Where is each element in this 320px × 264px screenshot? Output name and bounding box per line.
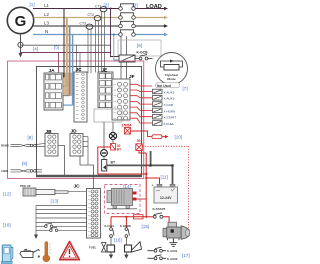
connector JE (98, 72, 113, 108)
junction K-START (145, 216, 147, 218)
svg-text:[12]: [12] (3, 192, 11, 197)
wire sense drop c (79, 53, 81, 73)
twisted pair RS485 (11, 144, 46, 147)
wire battery negative bus (107, 151, 173, 185)
svg-text:12-24V: 12-24V (160, 196, 172, 200)
flywheel diode D1 (156, 53, 188, 85)
junction on L1 (110, 8, 112, 10)
ground of generator (18, 42, 23, 57)
wire sender line 5 (36, 222, 87, 224)
svg-text:JC: JC (74, 184, 81, 190)
wire sense drop a (58, 53, 60, 75)
fuel solenoid valve (102, 243, 115, 253)
wire arrow output (162, 135, 169, 138)
icon oil can (20, 249, 40, 257)
wire CT3 secondary pair (87, 29, 89, 73)
svg-text:X-GCB: X-GCB (164, 103, 174, 107)
wire drop N sense (72, 35, 74, 106)
wire alternator B+ (137, 198, 147, 200)
wire to fuel valve (110, 237, 112, 245)
generator G1 (7, 7, 33, 42)
svg-text:CT2: CT2 (88, 13, 95, 17)
wire pickup to JC (68, 191, 87, 193)
wire K-START feed (146, 216, 153, 218)
dashed box charge alternator (105, 185, 141, 214)
wire earth link (21, 52, 111, 54)
ground senders (34, 234, 38, 240)
wire neutral sense (21, 44, 111, 46)
svg-text:X-START: X-START (164, 116, 177, 120)
svg-text:[18]: [18] (3, 223, 11, 228)
wire JD output stubs (83, 137, 88, 165)
svg-text:Diode: Diode (167, 77, 176, 81)
battery plus symbol (109, 132, 116, 139)
fuse F5 BT (102, 160, 107, 172)
svg-text:CT3: CT3 (80, 22, 87, 26)
icon thermometer (43, 242, 51, 262)
wire L3 to load (136, 24, 169, 28)
svg-text:50: 50 (137, 139, 141, 143)
wire to horn (125, 237, 127, 245)
wire JD to bottom JC (80, 156, 94, 189)
controller inner box (37, 67, 142, 177)
wire stub L2 to JA (62, 85, 67, 87)
svg-text:K-START: K-START (153, 207, 166, 211)
breaker pole 4 (119, 30, 136, 37)
junction battery negative (149, 164, 152, 167)
junction red (145, 173, 147, 175)
wire JB to JD link (58, 146, 65, 177)
connector JC bottom (87, 189, 101, 239)
wire K-GCB coil to JF (120, 62, 122, 79)
ground starter (169, 238, 177, 246)
sender switch 2 (36, 227, 87, 231)
relay contact K-AUX1 (148, 247, 178, 253)
sub box under JE (94, 109, 122, 122)
wire JF outputs to plugs (130, 84, 152, 123)
breaker pole 3 (119, 21, 136, 28)
svg-text:L1: L1 (44, 3, 49, 8)
svg-text:[9]: [9] (22, 161, 27, 166)
connector JB (45, 134, 58, 157)
wire CT2 secondary pair (95, 21, 97, 73)
starter motor M1 (163, 222, 190, 240)
svg-text:[4]: [4] (33, 47, 38, 52)
wire battery positive feed (98, 147, 160, 217)
wire L2 to load (136, 16, 169, 20)
svg-text:N: N (45, 29, 48, 34)
battery minus symbol (101, 150, 108, 157)
wire sender line 2 (36, 209, 87, 211)
charge alternator (107, 189, 137, 209)
fuse F2 30 BT (111, 144, 116, 151)
relay box K-GCB (118, 40, 161, 56)
svg-text:CT1: CT1 (95, 4, 102, 8)
junction on N (113, 34, 115, 36)
wire N (33, 34, 119, 36)
wire stub N to JA (62, 104, 73, 106)
inline fuse F4 (152, 135, 162, 139)
controller outer panel box (8, 61, 144, 179)
connector JC (74, 72, 87, 122)
wire relay bus K-FUEL K-HORN (111, 216, 145, 218)
connector JF (112, 79, 130, 120)
svg-text:PICK UP: PICK UP (20, 184, 31, 188)
fuse F1 15/54 (125, 128, 131, 135)
svg-text:[6]: [6] (137, 43, 142, 48)
wire neutral to coil (114, 35, 119, 61)
relay contact K-AUX2 (148, 255, 178, 261)
wire K-FUEL drop (110, 217, 112, 228)
current transformer CT3 (86, 24, 93, 29)
svg-text:[7]: [7] (183, 86, 188, 91)
svg-text:L3: L3 (44, 21, 49, 26)
svg-text:[1]: [1] (30, 2, 35, 7)
wire breaker control vertical (111, 9, 120, 57)
svg-text:K-GCB: K-GCB (137, 51, 149, 55)
svg-text:[17]: [17] (182, 253, 190, 258)
svg-text:K-AUX2: K-AUX2 (167, 257, 178, 261)
battery BAT1 12-24V (151, 183, 179, 204)
current transformer CT2 (94, 16, 101, 21)
tan wire bundle band (65, 73, 74, 96)
svg-text:[10]: [10] (175, 135, 183, 140)
plug X-FUEL (153, 121, 175, 126)
controller inner box bottom thick edge (36, 175, 142, 177)
relay contact K-START (153, 213, 163, 219)
wire sense drop b (76, 45, 78, 72)
wire arrow horn (124, 252, 128, 259)
svg-text:J1939: J1939 (1, 169, 9, 173)
horn H1 (125, 242, 142, 252)
wire breaker pole drops (120, 36, 122, 55)
plug X-AUX2 (153, 89, 175, 94)
pickup sensor (23, 188, 68, 196)
wire dotted auxiliary (142, 146, 188, 234)
current transformer CT1 (100, 7, 107, 12)
wire sender line 1 (36, 205, 87, 207)
wire minus stub (103, 122, 105, 150)
relay contact K-HORN (125, 228, 129, 238)
svg-text:15/54: 15/54 (122, 123, 133, 128)
plug X-GCB (153, 102, 174, 107)
twisted pair J1939 (11, 170, 43, 173)
svg-text:K-AUX1: K-AUX1 (167, 249, 178, 253)
connector JA (44, 73, 63, 110)
svg-text:X-AUX1: X-AUX1 (164, 97, 175, 101)
wire K-HORN drop (125, 217, 127, 228)
svg-text:K-FUEL: K-FUEL (105, 224, 115, 228)
wire drop L2 sense (66, 18, 68, 87)
svg-text:[11]: [11] (161, 175, 168, 180)
svg-text:L2: L2 (44, 12, 49, 17)
wire drop L3 sense (69, 26, 71, 96)
svg-text:RS485: RS485 (1, 144, 9, 148)
wire stub L3 to JA (62, 95, 70, 97)
wire L3 (34, 25, 119, 27)
svg-text:G: G (15, 13, 27, 30)
wire N to load (136, 33, 169, 37)
wire sender line 3 (36, 213, 87, 215)
svg-text:[15]: [15] (142, 224, 150, 229)
plug X-AUX1 (153, 96, 175, 101)
wire plus stub (112, 122, 114, 132)
wire K-START to starter (163, 217, 169, 224)
wire L2 (34, 17, 119, 19)
svg-text:K-HORN: K-HORN (120, 224, 131, 228)
svg-text:X-HORN: X-HORN (164, 109, 176, 113)
plug X-HORN (153, 108, 176, 113)
sender switch 1 (36, 223, 87, 227)
wire L1 (33, 8, 119, 10)
icon warning triangle (60, 242, 80, 260)
icon fuel pump (1, 245, 13, 264)
svg-text:X-FUEL: X-FUEL (164, 122, 175, 126)
svg-text:[2]: [2] (104, 3, 109, 8)
wire arrow fuel (109, 252, 113, 259)
plug X-START (153, 114, 177, 119)
wire L1 to load (136, 7, 169, 11)
svg-text:X-AUX2: X-AUX2 (164, 90, 175, 94)
label Not Used (156, 83, 180, 88)
wire sender line 4 (36, 217, 87, 219)
svg-text:[13]: [13] (51, 199, 59, 204)
svg-text:Not Used: Not Used (157, 84, 171, 88)
wire fuse F1 to aux output (131, 131, 152, 137)
relay coil K-GCB (119, 55, 135, 62)
breaker pole 2 (119, 13, 136, 19)
breaker pole 1 (119, 4, 136, 10)
connector JD (70, 134, 83, 157)
svg-text:BT: BT (117, 147, 121, 151)
wire stub L1 to JA (62, 76, 65, 78)
svg-text:[8]: [8] (28, 135, 33, 140)
wire sender common (35, 206, 37, 234)
wire CT1 secondary pair (101, 12, 103, 73)
relay contact K-FUEL (110, 228, 114, 238)
auxiliary contact GCB (135, 55, 153, 60)
wire drop L1 sense (63, 9, 65, 78)
fuse F3 50 (136, 144, 143, 151)
svg-text:[16]: [16] (114, 238, 122, 243)
inline fuse relay bus (134, 215, 144, 219)
svg-text:FUEL: FUEL (89, 246, 97, 250)
